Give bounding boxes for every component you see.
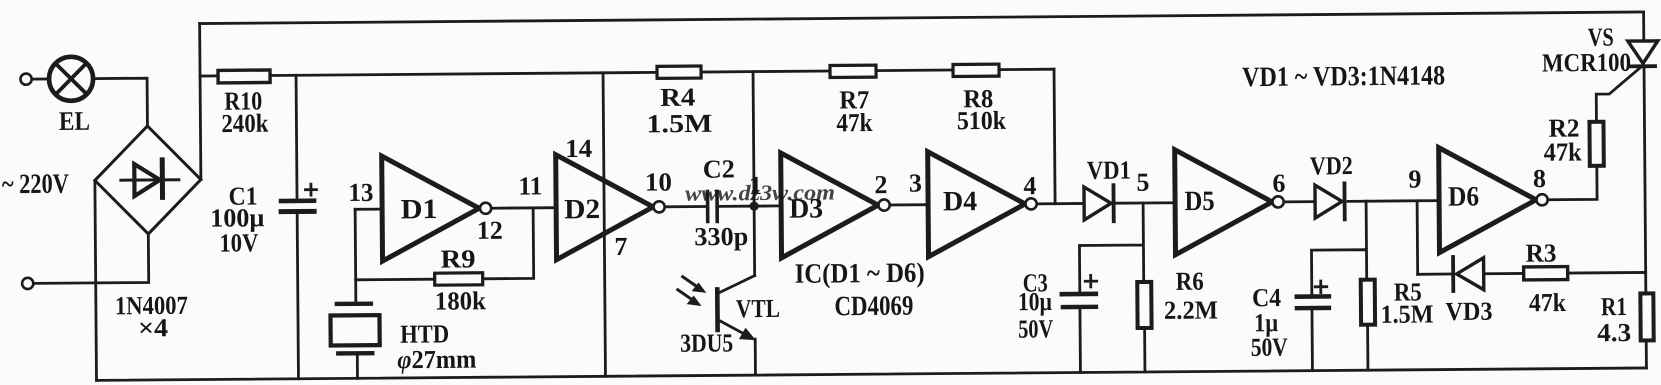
svg-text:D6: D6 — [1448, 181, 1479, 212]
wire node 5 branch down to C3 and R6 — [1079, 203, 1145, 373]
wire right rail thyristor cathode down through R3 node to R1 — [1644, 66, 1646, 367]
wire D2 output to C2 — [665, 205, 705, 208]
svg-text:1.5M: 1.5M — [646, 109, 712, 139]
svg-text:8: 8 — [1533, 164, 1546, 193]
wire C1 branch vertical — [296, 75, 298, 378]
svg-text:3DU5: 3DU5 — [680, 328, 733, 357]
svg-text:12: 12 — [477, 216, 503, 245]
svg-text:D2: D2 — [564, 194, 600, 225]
svg-text:MCR100: MCR100 — [1542, 48, 1631, 78]
wire VD1 to D5 input — [1116, 201, 1175, 204]
svg-text:VD2: VD2 — [1310, 151, 1353, 180]
svg-text:D5: D5 — [1184, 186, 1214, 217]
bridge rectifier 1N4007 x4 — [94, 126, 201, 235]
svg-text:CD4069: CD4069 — [834, 291, 913, 323]
wire top terminal to lamp — [32, 78, 48, 81]
resistor R6 — [1137, 282, 1151, 328]
terminal (AC input bottom) — [22, 278, 33, 289]
wire top rail (DC+ bus to thyristor anode) — [200, 12, 1644, 24]
resistor R7 — [830, 65, 876, 77]
op-amp inverter D1 — [382, 155, 492, 261]
wire thyristor anode from top rail — [1642, 12, 1645, 41]
svg-text:VD1: VD1 — [1087, 155, 1131, 184]
resistor R5 — [1361, 280, 1375, 325]
wire D3 output to D4 input — [890, 203, 928, 206]
light arrows into VTL — [678, 277, 706, 306]
svg-text:6: 6 — [1272, 169, 1285, 198]
svg-text:D1: D1 — [401, 194, 438, 225]
svg-text:13: 13 — [348, 178, 373, 207]
svg-text:×4: ×4 — [138, 313, 168, 342]
svg-text:47k: 47k — [1544, 137, 1583, 166]
op-amp inverter D5 — [1175, 149, 1284, 255]
svg-text:EL: EL — [59, 106, 90, 136]
svg-text:VD1 ~ VD3:1N4148: VD1 ~ VD3:1N4148 — [1242, 60, 1445, 93]
resistor R4 — [657, 66, 701, 78]
op-amp inverter D4 — [928, 151, 1037, 257]
op-amp inverter D6 — [1439, 147, 1548, 253]
capacitor C1 — [281, 184, 317, 211]
svg-text:11: 11 — [518, 171, 542, 200]
svg-text:10: 10 — [645, 167, 672, 196]
lamp EL — [49, 57, 93, 101]
wire node 1 to D3 input — [754, 204, 781, 207]
svg-text:50V: 50V — [1018, 314, 1053, 343]
resistor R10 — [218, 70, 270, 83]
wire VDD line segments with resistor gaps — [200, 69, 1054, 76]
svg-text:R4: R4 — [660, 83, 695, 112]
wire C2 to node 1 — [720, 205, 758, 208]
svg-text:~ 220V: ~ 220V — [2, 169, 69, 201]
wire D1 input branch down to HTD — [354, 209, 358, 303]
wire R9 feedback line — [355, 208, 534, 280]
capacitor C3 — [1062, 275, 1097, 307]
svg-text:7: 7 — [614, 232, 627, 261]
wire D6 input branch down to VD3 feedback — [1416, 201, 1419, 274]
svg-text:R3: R3 — [1525, 238, 1556, 267]
svg-text:50V: 50V — [1251, 333, 1288, 362]
resistor R1 — [1640, 293, 1653, 340]
svg-text:9: 9 — [1408, 165, 1421, 194]
diode VD3 (points left) — [1453, 257, 1484, 291]
wire D6 output to R2 — [1547, 166, 1597, 200]
svg-text:D4: D4 — [943, 186, 977, 217]
resistor R9 — [435, 273, 483, 285]
wire DC minus from bridge left vertex down — [95, 180, 97, 380]
wire D1 input — [355, 208, 382, 211]
svg-text:240k: 240k — [221, 109, 269, 138]
svg-text:R1: R1 — [1601, 292, 1627, 321]
svg-text:R6: R6 — [1176, 267, 1204, 296]
svg-text:VTL: VTL — [736, 294, 780, 323]
capacitor C4 — [1297, 281, 1329, 308]
wire VD2 to D6 input — [1348, 199, 1439, 203]
svg-text:10V: 10V — [219, 228, 258, 257]
svg-text:2.2M: 2.2M — [1164, 295, 1218, 324]
wire D4 output to VD1 — [1037, 202, 1084, 205]
diode VD2 — [1315, 183, 1345, 219]
svg-text:14: 14 — [565, 134, 592, 163]
op-amp inverter D3 — [781, 152, 890, 258]
wire VD3 feedback line — [1418, 272, 1646, 274]
svg-text:5: 5 — [1136, 168, 1149, 197]
diode inside bridge — [121, 160, 179, 198]
terminal (AC input top) — [20, 74, 31, 85]
svg-text:4.3: 4.3 — [1597, 318, 1631, 347]
capacitor C2 — [707, 191, 717, 221]
svg-text:10μ: 10μ — [1018, 287, 1052, 316]
wire bottom terminal to bridge bottom vertex — [33, 234, 148, 283]
wire R2 to thyristor gate — [1596, 67, 1641, 122]
wire VDD right corner down to D4 output — [1054, 69, 1055, 203]
svg-text:4: 4 — [1023, 171, 1036, 200]
svg-text:47k: 47k — [1529, 288, 1567, 317]
phototransistor VTL 3DU5 — [717, 276, 755, 376]
svg-text:180k: 180k — [435, 286, 487, 315]
wire node after VD2 down to C4 and R5 — [1311, 201, 1368, 370]
svg-text:47k: 47k — [836, 108, 873, 137]
svg-text:3: 3 — [909, 169, 922, 198]
wire D5 output to VD2 — [1284, 200, 1315, 203]
svg-text:2: 2 — [874, 170, 887, 199]
resistor R2 — [1589, 122, 1603, 166]
svg-text:www.dz3w.com: www.dz3w.com — [685, 179, 835, 205]
wire D2 pin14/pin7 power vertical — [603, 73, 605, 376]
svg-text:510k: 510k — [957, 106, 1007, 135]
svg-text:φ27mm: φ27mm — [397, 345, 477, 375]
wire lamp to bridge top vertex — [94, 78, 148, 126]
resistor R3 — [1524, 267, 1568, 280]
wire node 1 vertical (up to R4 line, down to VTL) — [753, 72, 755, 276]
diode VD1 — [1084, 185, 1114, 221]
wire bottom ground rail — [96, 368, 1646, 380]
wire left DC+ rail — [200, 24, 201, 180]
svg-text:IC(D1 ~ D6): IC(D1 ~ D6) — [795, 258, 925, 290]
svg-text:330p: 330p — [694, 222, 748, 251]
piezo transducer HTD — [330, 304, 380, 379]
svg-text:R9: R9 — [440, 244, 475, 273]
node 1 junction dot — [749, 201, 758, 210]
thyristor VS MCR100 — [1628, 41, 1658, 67]
wire D1 output to D2 input — [491, 206, 556, 209]
resistor R8 — [953, 64, 999, 76]
svg-text:1.5M: 1.5M — [1380, 299, 1433, 328]
op-amp inverter D2 — [556, 154, 665, 260]
svg-text:VD3: VD3 — [1445, 297, 1492, 326]
